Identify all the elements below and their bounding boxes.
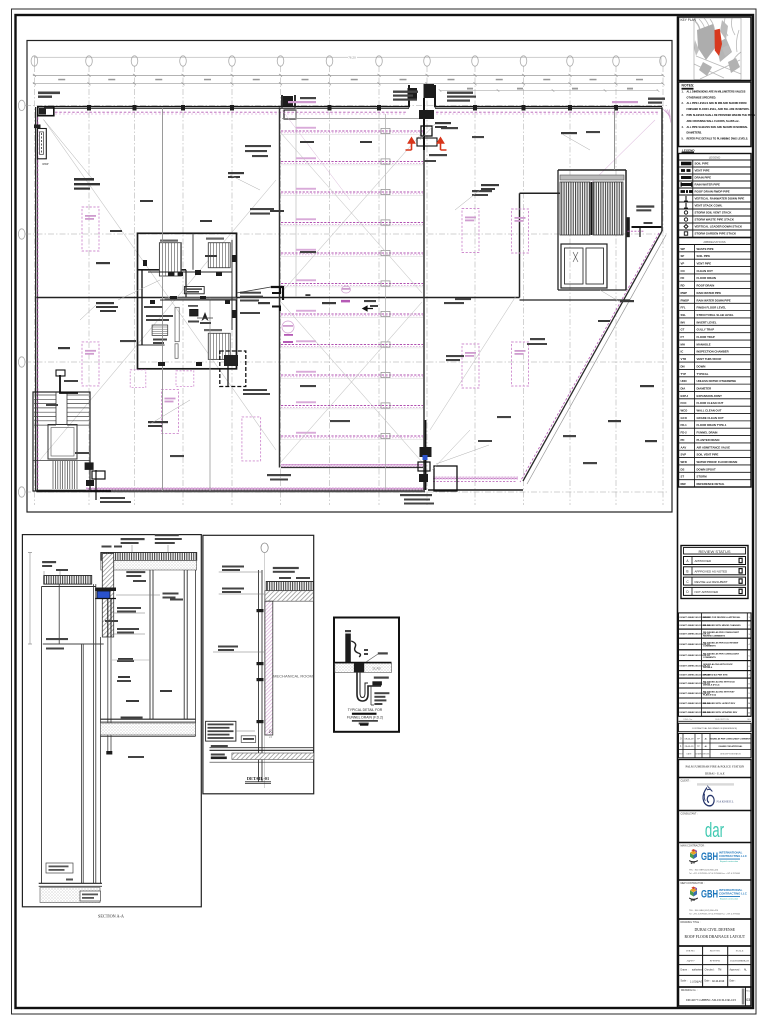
left wall insulation dashed [37,113,39,488]
svg-text:RE-ISSUED AS PER DCD REVIEW: RE-ISSUED AS PER DCD REVIEW [703,641,739,644]
svg-text:STORM: STORM [697,475,708,479]
mid horizontal line [43,643,104,645]
funnel riser [345,634,351,663]
svg-text:SOIL VENT PIPE: SOIL VENT PIPE [697,453,719,457]
column stubs on wall [87,105,91,111]
svg-text:FLOOR TRAP: FLOOR TRAP [697,335,715,339]
grid line [25,361,668,363]
svg-text:PALM JUMEIRAH: PALM JUMEIRAH [730,960,749,963]
svg-text:EXPANSION JOINT: EXPANSION JOINT [697,394,723,398]
svg-text:REFERENCE DETAIL: REFERENCE DETAIL [697,482,725,486]
drawing title box [679,919,752,946]
wall insulation pink [265,601,273,735]
main contractor box [679,843,752,881]
grid line [615,66,617,505]
AHU unit bottom-right [208,333,230,359]
left wall [35,107,37,491]
svg-text:DETAILS (F.D.2): DETAILS (F.D.2) [703,684,720,687]
svg-text:REFER PVC DETAILS TO PLUMBING: REFER PVC DETAILS TO PLUMBING DWG LEVELS… [687,138,749,141]
gutter zigzag bottom [281,464,423,467]
svg-text:ROOF DRAIN RWDP PIPE: ROOF DRAIN RWDP PIPE [695,190,730,194]
grid line [569,66,571,505]
svg-text:FD-2: FD-2 [681,431,688,435]
bottom floor [39,882,102,884]
svg-text:2.: 2. [682,102,684,105]
svg-text:VP: VP [681,262,685,266]
svg-text:DN: DN [681,364,685,368]
svg-text:PIPE SLEEVES SHALL BE PROVIDED: PIPE SLEEVES SHALL BE PROVIDED WHERE THE… [687,114,756,117]
AHU unit top-right [208,243,230,268]
svg-text:GRADE CLEAN OUT: GRADE CLEAN OUT [697,416,724,420]
vent cowl label [241,736,256,743]
svg-text:CONTRACTUAL INFORMATION (REFER: CONTRACTUAL INFORMATION (REFERENCE) [692,727,738,730]
core drain pipes [627,217,630,237]
stripe outlet column line [385,114,387,489]
svg-text:23-05-19: 23-05-19 [685,746,695,748]
mid wall [36,297,519,299]
svg-text:WFD: WFD [681,460,687,464]
svg-text:DWG. No.: DWG. No. [683,719,693,721]
svg-text:COMMENTS: COMMENTS [703,646,716,648]
slab band [335,662,392,664]
svg-text:UPDATED AS PER SITE: UPDATED AS PER SITE [703,673,728,676]
svg-text:CLEAN OUT: CLEAN OUT [697,269,714,273]
svg-text:FUNNEL DRAIN (F.D.2): FUNNEL DRAIN (F.D.2) [347,716,383,720]
funnel detail box [334,618,399,732]
svg-text:RAIN WATER DOWN PIPE: RAIN WATER DOWN PIPE [697,298,731,302]
svg-text:D014077-GBHBC-SD-DCD-DR-103: D014077-GBHBC-SD-DCD-DR-103 [686,998,736,1002]
left roof slab [44,576,92,585]
svg-text:WP: WP [681,247,686,251]
corner hatch [664,110,671,117]
abbreviations box [679,238,752,488]
blue drain body [97,591,110,599]
svg-text:gbh: gbh [691,862,696,865]
pumps room label box [184,287,204,294]
red arrow right [438,138,447,150]
svg-text:RWP: RWP [43,162,49,166]
key plan map [694,18,741,79]
svg-text:TEL : 800 GBH (424) 800-424: TEL : 800 GBH (424) 800-424 [689,870,719,872]
leaders left [219,571,262,573]
svg-text:INVERT LEVEL: INVERT LEVEL [697,320,717,324]
svg-text:AAV: AAV [681,445,687,449]
svg-text:UNO: UNO [681,379,688,383]
svg-text:AIR ADMITTANCE VALVE: AIR ADMITTANCE VALVE [697,445,731,449]
svg-text:VTR: VTR [681,357,687,361]
p-trap [357,672,381,701]
svg-text:ALL PIPE SLEEVES SIZE ARE SHOW: ALL PIPE SLEEVES SIZE ARE SHOWN IN NOMIN… [687,126,749,129]
project title box [679,760,752,778]
top-left corner wall block [38,107,54,116]
bottom insulation zigzag [86,488,425,491]
lower zigzag right [433,477,518,480]
svg-text:CONTRACTING LLC: CONTRACTING LLC [719,892,748,896]
grid line [280,66,282,505]
slope line [44,120,277,451]
svg-text:SSL: SSL [681,313,687,317]
svg-text:UNLESS NOTED OTHERWISE: UNLESS NOTED OTHERWISE [697,379,737,383]
svg-text:B: B [686,570,688,574]
leader lines pass2 [118,280,160,300]
gutter wall left [279,107,281,467]
pipe drops [141,270,143,345]
svg-text:CONSULTANT :: CONSULTANT : [681,812,698,815]
note box [206,721,236,741]
expansion joint label magenta [288,101,316,103]
svg-text:GBH: GBH [701,888,718,901]
svg-text:WATER PROOF FLOOR DRAIN: WATER PROOF FLOOR DRAIN [697,460,738,464]
labels above section [121,538,145,540]
ssl label box [46,863,73,873]
machine room extra fittings [168,272,174,276]
svg-text:GBH: GBH [701,851,718,864]
svg-text:WASTE PIPE: WASTE PIPE [697,247,714,251]
bottom wall right segment [428,489,523,491]
grid line [25,233,668,235]
svg-text:RAIN WATER PIPE: RAIN WATER PIPE [697,291,722,295]
grid line [426,66,428,505]
svg-text:JOB NO.: JOB NO. [686,950,695,953]
hatched wall column [102,554,113,637]
roof hatch dashed rects [82,207,99,251]
svg-text:DUBAI CIVIL DEFENSE: DUBAI CIVIL DEFENSE [695,928,736,932]
top slab hatched [101,553,197,561]
svg-text:TM: TM [718,970,721,972]
top wall right segment [435,105,662,107]
svg-text:02-10-2019: 02-10-2019 [712,980,725,983]
svg-text:1 : 50: 1 : 50 [269,729,273,738]
stair landing [48,425,77,460]
svg-text:03: 03 [746,998,750,1002]
svg-text:RE-ISSUED AS PER CONSULTANT: RE-ISSUED AS PER CONSULTANT [703,653,740,656]
svg-text:VERTICAL LEADER DOWN STACK: VERTICAL LEADER DOWN STACK [695,225,743,229]
elbow connection [271,287,283,300]
detail-01 box [203,535,314,794]
stair enclosure [33,392,90,491]
AHU unit top-left [159,243,181,276]
svg-text:EXP.J: EXP.J [681,394,689,398]
compass mark [282,321,294,333]
squiggle pipe [351,641,360,657]
svg-text:DATE: DATE [687,753,693,756]
pipe labels mid [117,660,134,662]
svg-text:GCO: GCO [681,416,688,420]
key plan highlight red [715,29,723,56]
label top-left [38,92,60,95]
svg-text:CONTRACTING LLC: CONTRACTING LLC [719,854,748,858]
svg-text:ROOF FLOOR DRAINAGE LAYOUT: ROOF FLOOR DRAINAGE LAYOUT [685,935,746,939]
svg-text:FT: FT [681,335,685,339]
roof slab hatched [266,582,313,591]
grid bubbles top [31,56,38,66]
grid line [329,66,331,505]
ac box [190,309,198,316]
svg-text:1.: 1. [682,90,684,93]
leaders [432,430,470,470]
sub contractor box [679,880,752,919]
dar logo [705,819,724,841]
svg-text:PLANTER DRAIN: PLANTER DRAIN [697,438,720,442]
svg-text:RE-ISSUED ALONG WITH DCD: RE-ISSUED ALONG WITH DCD [703,680,735,683]
svg-text:5.: 5. [682,138,684,141]
svg-text:09-04-19: 09-04-19 [685,739,695,741]
revisions table [679,613,752,621]
svg-text:3.: 3. [682,114,684,117]
down pipe dark in wall [107,599,109,638]
machine room outer walls [138,233,237,368]
svg-text:PJ-FST-01: PJ-FST-01 [710,960,721,963]
row grid bubbles left [18,100,25,110]
svg-text:RE-ISSUED AS PER CONSULTANT: RE-ISSUED AS PER CONSULTANT [703,631,740,634]
stair rails [55,392,57,424]
svg-text:SVP: SVP [681,453,687,457]
misc plan labels [245,145,271,147]
svg-text:TYP: TYP [681,372,687,376]
stair treads hatched [560,175,624,180]
svg-text:SCALE: SCALE [736,950,744,953]
grid line [25,491,668,493]
stair treads upper [34,394,56,396]
dim line left [29,553,31,645]
svg-text:DOWN: DOWN [697,364,706,368]
svg-text:ISSUED AS PER CONSULTANT COMME: ISSUED AS PER CONSULTANT COMMENTS [710,738,752,741]
svg-text:NOTES:: NOTES: [682,84,695,88]
svg-text:PLOT NO.: PLOT NO. [710,950,721,953]
grid line [182,66,184,505]
gutter head cluster at x282 [281,95,283,107]
labels top cluster [393,91,418,93]
notch walls [408,85,410,107]
svg-text:DETAILS: DETAILS [703,666,713,669]
leader [44,120,93,180]
left mid drain elbow [60,375,78,393]
svg-text:authorized: authorized [692,969,703,972]
parapet left labels [42,561,56,563]
svg-text:TYPICAL DETAIL FOR: TYPICAL DETAIL FOR [348,708,383,712]
grid line [378,66,380,505]
svg-text:REVIEW COMMENTS: REVIEW COMMENTS [703,635,726,637]
svg-text:STORM GARDEN PIPE STACK: STORM GARDEN PIPE STACK [695,232,738,236]
machine room partitions [138,269,187,271]
svg-text:SOIL PIPE: SOIL PIPE [695,162,709,166]
review status box [681,546,748,599]
svg-text:DUBAI - U.A.E: DUBAI - U.A.E [705,771,725,775]
slope diagonals [281,133,422,293]
pipe clamps [257,609,264,612]
svg-text:FLOOR DRAIN TYPE-1: FLOOR DRAIN TYPE-1 [697,423,727,427]
svg-text:ABBREVIATIONS: ABBREVIATIONS [703,240,725,244]
grid line [25,104,668,106]
parallel diagonal [527,235,666,484]
internal line [295,108,297,297]
svg-text:RE-ISSUED WITH UPDATED REV: RE-ISSUED WITH UPDATED REV [703,711,738,714]
svg-text:IC: IC [681,350,684,354]
svg-text:FD-1: FD-1 [681,423,688,427]
magenta rects below machine room [130,370,146,388]
consultant box [679,811,752,843]
client box [679,778,752,811]
svg-text:INSPECTION CHAMBER: INSPECTION CHAMBER [697,350,729,354]
machine room right labels [240,292,261,294]
red arrow left [406,138,415,150]
svg-text:MAIN CONTRACTOR :: MAIN CONTRACTOR : [681,844,706,847]
svg-text:VENT STACK COWL: VENT STACK COWL [695,204,723,208]
svg-text:FINISH FLOOR LEVEL: FINISH FLOOR LEVEL [697,306,727,310]
grid bubble [261,543,268,553]
key plan box [679,17,752,81]
roof slope stripes [281,130,423,132]
svg-text:STRUCTURAL SLAB LEVEL: STRUCTURAL SLAB LEVEL [697,313,735,317]
svg-text:DIA: DIA [681,386,686,390]
svg-text:ALL DIMENSIONS ARE IN MILLIMET: ALL DIMENSIONS ARE IN MILLIMETERS UNLESS [687,90,746,93]
svg-text:REVISE and RESUBMIT: REVISE and RESUBMIT [695,580,728,584]
grid line [474,66,476,505]
svg-text:CLIENT :: CLIENT : [681,779,691,782]
svg-text:RWDP: RWDP [681,298,690,302]
svg-text:DESCRIPTION/STATUS: DESCRIPTION/STATUS [720,753,741,756]
core wall top [520,192,561,194]
svg-text:Tel : +971 4 2979333 +971 4 2: Tel : +971 4 2979333 +971 4 2979444 Fax … [689,873,740,875]
svg-text:ISSUED FOR APPROVAL: ISSUED FOR APPROVAL [719,745,743,748]
svg-text:RD: RD [681,284,685,288]
svg-text:ALL PIPE LEVELS ARE IN MM AND: ALL PIPE LEVELS ARE IN MM AND SHOWN FROM [687,102,747,105]
svg-text:VERTICAL RAINWATER DOWN PIPE: VERTICAL RAINWATER DOWN PIPE [695,197,745,201]
svg-text:DESCRIPTION: DESCRIPTION [715,719,729,721]
svg-text:VENT PIPE: VENT PIPE [695,169,710,173]
svg-text:DRAWING TITLE :: DRAWING TITLE : [681,921,701,924]
shaft walls [41,587,43,884]
contractual information row [679,723,752,731]
svg-text:TEL : 800 GBH (424) 800-424: TEL : 800 GBH (424) 800-424 [689,910,719,912]
svg-text:DIAMETERS.: DIAMETERS. [687,132,703,135]
small dashed rect pair [242,417,261,461]
svg-text:Scale :: Scale : [681,981,688,983]
svg-text:ROOF DRAIN: ROOF DRAIN [697,284,715,288]
svg-text:WALL CLEAN OUT: WALL CLEAN OUT [697,409,722,413]
RWDP pipe box [37,129,46,159]
svg-text:Drawn :: Drawn : [681,969,689,972]
svg-text:dar: dar [705,819,724,841]
right wall top [661,107,663,231]
svg-text:DIAMETER: DIAMETER [697,386,712,390]
leaders + labels right [116,594,160,596]
svg-text:Beyond construction: Beyond construction [720,898,738,901]
slope line right zone [588,120,655,186]
svg-text:APPROVED: APPROVED [695,559,713,563]
slot channels [175,307,179,341]
svg-text:PLAN (F.D.2): PLAN (F.D.2) [703,694,716,697]
bottom stack [425,420,427,490]
dashed sump box [220,351,246,387]
svg-text:NAKHEEL: NAKHEEL [717,800,734,804]
svg-text:STORM SOIL VENT STACK: STORM SOIL VENT STACK [695,211,733,215]
elevator shafts [561,244,607,288]
grid line [88,66,90,505]
right leader lines [370,686,372,705]
svg-text:FCO: FCO [681,401,688,405]
grid line [523,66,525,505]
top insulation dashed [55,111,407,113]
grid line [662,66,664,505]
pump [152,325,168,335]
svg-text:PD: PD [681,438,685,442]
svg-text:ISSUED FOR REVIEW & APPROVAL: ISSUED FOR REVIEW & APPROVAL [703,616,741,619]
mid labels [530,338,545,340]
svg-text:Date :: Date : [730,980,736,983]
svg-text:VENT THRU ROOF: VENT THRU ROOF [697,357,722,361]
svg-text:DRAIN PIPE: DRAIN PIPE [695,176,712,180]
svg-text:DRAWING No. :: DRAWING No. : [681,989,698,992]
lower-left drain cluster [85,462,94,470]
svg-text:SOIL PIPE: SOIL PIPE [697,254,711,258]
svg-text:FUNNEL DRAIN: FUNNEL DRAIN [697,431,718,435]
grid line [231,66,233,505]
bottom wall [36,489,425,491]
stair treads lower vertical [52,461,54,489]
dimension lines [33,74,663,76]
svg-text:TYPICAL: TYPICAL [697,372,709,376]
main diagonal cut [523,231,662,481]
gutter wall right [423,113,425,490]
core wall vertical [519,193,521,297]
svg-text:REVIEW STATUS: REVIEW STATUS [698,549,730,554]
svg-text:NOT APPROVED: NOT APPROVED [695,590,719,594]
svg-text:DOWN SPOUT: DOWN SPOUT [697,467,717,471]
svg-text:J14-077: J14-077 [686,960,695,963]
svg-text:MANHOLE: MANHOLE [697,342,711,346]
svg-text:FLOOR CLEAN OUT: FLOOR CLEAN OUT [697,401,724,405]
terrace floor band [101,718,196,720]
svg-text:Rev.: Rev. [746,991,750,993]
misc labels pass2 [96,302,114,304]
svg-text:76.20: 76.20 [348,56,356,60]
svg-text:FD: FD [681,276,685,280]
svg-text:ISSUED ALONG WITH ROOF: ISSUED ALONG WITH ROOF [703,663,733,666]
svg-text:OTHERWISE SPECIFIED.: OTHERWISE SPECIFIED. [687,96,717,99]
grid line [134,66,136,505]
riser pipe [258,570,260,782]
svg-text:FINISHED FLOOR LEVEL, AND SSL: FINISHED FLOOR LEVEL, AND SSL ARE IN MET… [687,108,750,111]
top wall left segment [44,105,409,107]
svg-text:SECTION A-A: SECTION A-A [98,914,124,919]
svg-text:GULLY TRAP: GULLY TRAP [697,328,715,332]
issue rows [679,734,752,758]
svg-text:MEP CONTRACTOR :: MEP CONTRACTOR : [681,882,705,885]
svg-text:RWP: RWP [681,291,688,295]
svg-text:ST: ST [681,475,685,479]
stair core walls [557,170,559,290]
svg-text:MECHANICAL ROOM: MECHANICAL ROOM [273,674,313,679]
svg-text:Approved :: Approved : [730,969,741,972]
gutter top inner line [282,118,423,120]
roof drain blobs [408,88,418,100]
north arrow [202,312,209,321]
svg-text:KEY PLAN: KEY PLAN [681,18,697,22]
title block divider [677,16,679,1007]
svg-text:4.: 4. [682,126,684,129]
svg-text:DETAIL-01: DETAIL-01 [247,776,269,781]
svg-text:Date :: Date : [705,980,711,983]
svg-text:RE-ISSUED WITH MINOR CHANGES: RE-ISSUED WITH MINOR CHANGES [703,624,741,627]
svg-text:CHECKED: CHECKED [702,754,710,756]
svg-text:GT: GT [681,328,685,332]
mid wall junction fittings [272,286,280,293]
grid line [33,66,35,505]
svg-text:RE-ISSUED ALONG WITH KEY: RE-ISSUED ALONG WITH KEY [703,690,735,693]
svg-text:APPROVED AS NOTED: APPROVED AS NOTED [695,570,729,574]
svg-text:PALM JUMEIRAH FIRE & POLICE ST: PALM JUMEIRAH FIRE & POLICE STATION [686,764,745,768]
